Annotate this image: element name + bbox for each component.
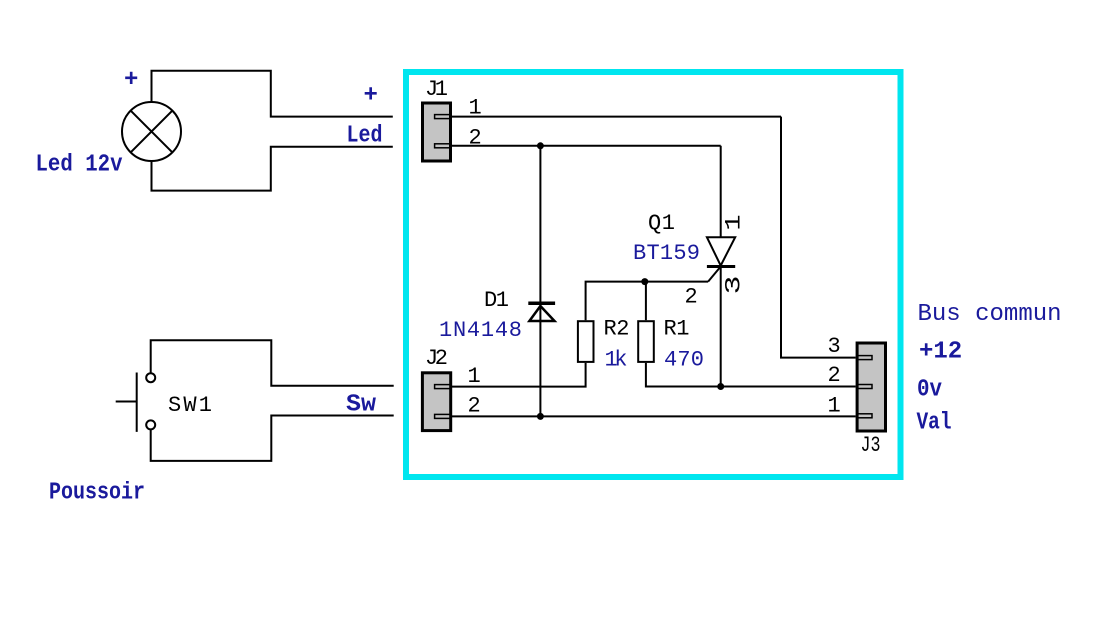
wire gate run	[586, 282, 709, 321]
wire SW1 top	[151, 340, 394, 386]
svg-text:1: 1	[468, 364, 481, 389]
connector J1 body	[423, 103, 451, 161]
svg-text:Led: Led	[347, 123, 383, 150]
wire R1 bottom to J3 pin2	[646, 363, 856, 387]
wire R1 top	[645, 282, 647, 321]
lamp LA1 circle	[122, 102, 181, 161]
svg-text:Led 12v: Led 12v	[36, 152, 123, 179]
svg-text:3: 3	[828, 334, 841, 359]
svg-text:+12: +12	[919, 339, 962, 366]
switch SW1 top contact circle	[146, 373, 155, 382]
svg-text:3: 3	[722, 276, 747, 295]
svg-text:2: 2	[685, 285, 698, 310]
thyristor Q1 triangle	[707, 237, 735, 265]
connector J3 body	[857, 343, 885, 431]
connector J3 pin1 socket	[857, 414, 872, 418]
svg-text:SW1: SW1	[168, 393, 212, 418]
svg-text:2: 2	[468, 394, 481, 419]
svg-text:R2: R2	[604, 317, 630, 342]
svg-text:+: +	[124, 67, 138, 94]
svg-text:D1: D1	[484, 288, 509, 313]
thyristor Q1 gate diagonal	[708, 267, 721, 282]
connector J1 pin2 socket	[435, 144, 452, 148]
wire D1 branch	[539, 146, 541, 417]
resistor R2 body	[578, 321, 594, 362]
lamp LA1 cross	[131, 111, 173, 153]
wire riser to J3 pin3	[781, 117, 856, 358]
junction dot A	[537, 142, 544, 149]
wire lamp bottom	[152, 147, 393, 191]
svg-text:R1: R1	[664, 317, 690, 342]
connector J2 body	[422, 373, 450, 431]
resistor R1 body	[638, 321, 654, 362]
svg-text:1k: 1k	[605, 348, 628, 373]
svg-text:1N4148: 1N4148	[439, 318, 522, 343]
switch SW1 bottom contact circle	[146, 420, 155, 429]
svg-text:+: +	[364, 83, 378, 110]
svg-text:Poussoir: Poussoir	[49, 480, 145, 507]
switch SW1 plunger	[116, 373, 137, 432]
connector J3 pin3 socket	[857, 356, 872, 360]
connector J2 pin1 socket	[435, 385, 452, 389]
wire SW1 bottom	[151, 416, 394, 461]
svg-text:470: 470	[664, 348, 704, 373]
junction dot B	[641, 278, 648, 285]
frame box (cyan border)	[406, 72, 901, 477]
svg-text:J3: J3	[861, 433, 881, 458]
svg-text:Bus commun: Bus commun	[918, 301, 1062, 328]
thyristor Q1 cathode bar	[707, 265, 735, 268]
svg-text:Sw: Sw	[346, 392, 377, 419]
wire down to Q1 anode	[720, 146, 722, 237]
svg-text:1: 1	[722, 215, 747, 231]
svg-text:2: 2	[828, 363, 841, 388]
junction dot D	[717, 383, 724, 390]
wire J2 pin1 to R2 bottom	[452, 363, 586, 387]
junction dot C	[537, 413, 544, 420]
svg-text:1: 1	[828, 394, 841, 419]
wire lamp top	[152, 71, 393, 117]
svg-text:0v: 0v	[917, 377, 942, 404]
connector J2 pin2 socket	[435, 414, 452, 418]
connector J1 pin1 socket	[435, 115, 452, 119]
svg-text:J2: J2	[425, 346, 448, 371]
diode D1 cathode bar	[528, 302, 555, 306]
connector J3 pin2 socket	[857, 385, 872, 389]
wire J1 pin1 to right riser	[452, 116, 781, 118]
svg-text:J1: J1	[425, 77, 448, 102]
svg-text:Val: Val	[917, 410, 952, 437]
wire J2 pin2 to J3 pin1	[452, 415, 856, 417]
diode D1 triangle	[529, 306, 554, 321]
wire J1 pin2	[452, 145, 721, 147]
svg-text:Q1: Q1	[648, 211, 675, 236]
wire Q1 cathode down	[720, 267, 722, 387]
svg-text:BT159: BT159	[633, 241, 700, 266]
